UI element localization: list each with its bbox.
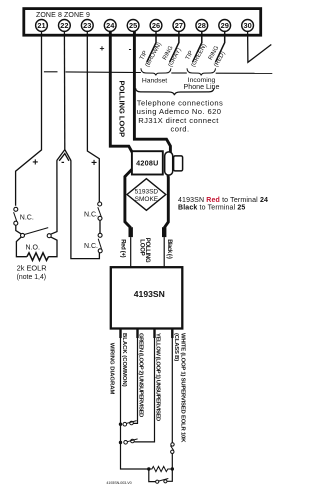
parallel branch switch arm [159,479,168,482]
white loop1 wire [171,329,173,443]
brace handset [141,68,171,75]
yellow row switch arm [127,439,137,442]
svg-text:4208U: 4208U [136,158,158,167]
svg-text:POLLING LOOP: POLLING LOOP [117,81,126,138]
svg-text:4193SN-003-V0: 4193SN-003-V0 [106,481,131,485]
terminal 25 [127,20,139,32]
terminal 21 [36,20,48,32]
resistor 2k EOLR [27,253,49,261]
svg-text:29: 29 [221,21,229,30]
svg-text:22: 22 [60,21,68,30]
junction dot rail right [171,467,174,470]
cabinet edge rule segment A [44,71,58,73]
yellow row contact left circle [124,441,128,445]
svg-text:23: 23 [83,21,91,30]
zone 8 NC switch arm [14,212,17,221]
svg-text:Phone Line: Phone Line [184,83,220,91]
cabinet edge rule segment D [216,72,273,74]
svg-text:27: 27 [175,21,183,30]
svg-text:24: 24 [106,21,115,30]
svg-text:21: 21 [37,21,45,30]
terminal 26 [150,20,162,32]
wire EOLR rail right to zone 8 NO right [48,237,57,257]
green row switch arm [127,421,137,424]
terminal 28 [196,20,208,32]
terminal 23 [81,20,93,32]
junction dot rail left [147,467,150,470]
parallel branch left drop [149,469,156,482]
svg-text:+: + [91,158,97,169]
4208U connector plug [174,156,183,171]
zone 8 NC contact circle top [14,207,18,211]
zone 8 NO switch arm [24,228,48,235]
svg-text:Black to Terminal 25: Black to Terminal 25 [178,204,245,211]
label TIP (BROWN) terminal 26 [138,38,164,68]
splice bar black lead [162,227,166,237]
green row contact right circle [130,421,134,425]
wire from terminal 29 incoming ring [216,31,225,62]
svg-text:30: 30 [243,21,251,30]
wire zone 8 NO left to EOLR rail [16,237,27,257]
svg-text:N.C.: N.C. [84,211,98,218]
wire from terminal 28 incoming tip [193,31,202,62]
junction dot black yellow row [119,441,122,444]
parallel branch contact right circle [164,480,167,483]
note telephone connections [137,99,224,134]
smoke detector 5193SD diamond [127,179,166,211]
zone 9 NC2 circle top [98,233,102,237]
svg-text:N.C.: N.C. [20,215,34,222]
svg-text:Red (+): Red (+) [120,239,126,257]
black lead wire to 4193SN [163,237,165,267]
svg-text:2k EOLR: 2k EOLR [17,264,47,273]
cabinet edge rule segment B [66,71,141,74]
svg-text:-: - [61,157,64,168]
svg-text:26: 26 [152,21,160,30]
wire from terminal 22 (zone common -) [63,31,65,150]
svg-text:BLACK (COMMON): BLACK (COMMON) [121,333,127,387]
svg-text:5193SD: 5193SD [135,188,159,195]
terminal 29 [219,20,231,32]
zone 9 NC1 switch arm [98,207,101,216]
wire from terminal 23 (zone 9 +) [87,31,99,202]
wire zone 9 between contacts [99,220,101,233]
zone 9 NC2 switch arm [98,239,101,249]
zone 8 NO contact circle left [21,233,25,237]
svg-text:28: 28 [198,21,206,30]
splice bar red lead [128,227,132,237]
4208U module box [132,151,163,174]
wire zone 8 return up to fan [51,160,57,234]
terminal 22 [59,20,71,32]
brace telephone group [136,88,214,95]
cabinet edge rule segment C [171,72,187,74]
svg-text:N.O.: N.O. [26,244,40,251]
terminal strip box [24,9,261,36]
svg-text:Black (-): Black (-) [166,239,172,259]
parallel branch right riser [167,469,172,481]
svg-text:WIRING DIAGRAM: WIRING DIAGRAM [108,343,114,395]
white branch NC contact bottom circle [171,450,174,453]
4208U connector pill [165,152,173,175]
junction dot black green row [119,423,122,426]
label TIP (GREEN) terminal 28 [183,39,208,68]
svg-text:GREEN (LOOP 2) UNSUPERVISED: GREEN (LOOP 2) UNSUPERVISED [138,333,144,417]
zone 9 NC1 circle bottom [98,216,102,220]
wire from terminal 21 (zone 8 +) [16,31,42,206]
brace incoming phone line [187,68,216,75]
zone 9 NC1 circle top [98,202,102,206]
terminal 27 [173,20,185,32]
svg-text:4193SN Red to Terminal 24: 4193SN Red to Terminal 24 [178,197,268,204]
svg-text:YELLOW (LOOP 1) UNSUPERVISED: YELLOW (LOOP 1) UNSUPERVISED [155,333,161,421]
yellow stub [153,329,155,339]
svg-text:(CLASS B): (CLASS B) [173,333,179,361]
zone 9 NC2 circle bottom [98,249,102,253]
svg-text:+: + [100,43,105,53]
svg-text:WHITE (LOOP 1) SUPERVISED EOLR: WHITE (LOOP 1) SUPERVISED EOLR 10K [179,333,185,443]
green stub [136,329,138,339]
svg-text:cord.: cord. [171,124,190,133]
white branch NC switch arm [171,446,174,451]
black common stub [119,329,121,339]
wire from terminal 26 handset tip [147,31,156,62]
white stub [171,329,173,339]
wire from terminal 30 to earth ground [248,31,272,62]
label RING (RED) terminal 29 [206,45,228,68]
wire 4208U out left down [125,169,132,227]
black common wire [121,329,149,470]
4193SN module box [111,267,183,328]
resistor EOLR 10K [149,466,173,471]
terminal 30 [242,20,254,32]
svg-text:Handset: Handset [142,78,167,85]
wire 22 fan split [57,150,71,161]
red lead wire to 4193SN [130,237,132,267]
label RING (GRAY) terminal 27 [160,43,182,68]
green loop2 wire [133,329,137,424]
svg-text:N.C.: N.C. [84,243,98,250]
white branch wire to rail [171,454,173,470]
zone 8 NO contact circle right [47,234,51,238]
svg-text:SMOKE: SMOKE [135,196,159,203]
svg-text:+: + [32,158,38,169]
parallel branch contact left circle [156,480,159,483]
svg-text:4193SN: 4193SN [134,289,165,299]
svg-text:-: - [129,43,132,53]
wire from terminal 27 handset ring [170,31,179,62]
wire polling loop + from terminal 24 [110,31,132,153]
svg-text:25: 25 [129,21,137,30]
svg-text:ZONE 8 ZONE 9: ZONE 8 ZONE 9 [36,12,90,19]
yellow loop1 wire [134,329,154,442]
white branch NC contact top circle [171,443,174,446]
wire connector out down [164,175,168,228]
wire zone 8 NC to NO [16,225,21,234]
wire zone 9 common branch down [71,160,100,258]
svg-text:LOOP: LOOP [139,239,145,256]
svg-text:(note 1,4): (note 1,4) [17,274,46,281]
terminal 24 [104,20,116,32]
zone 8 NC contact circle bottom [14,221,18,225]
yellow row contact right circle [131,439,135,443]
green row contact left circle [123,422,127,426]
wire polling loop - from terminal 25 [134,31,170,153]
